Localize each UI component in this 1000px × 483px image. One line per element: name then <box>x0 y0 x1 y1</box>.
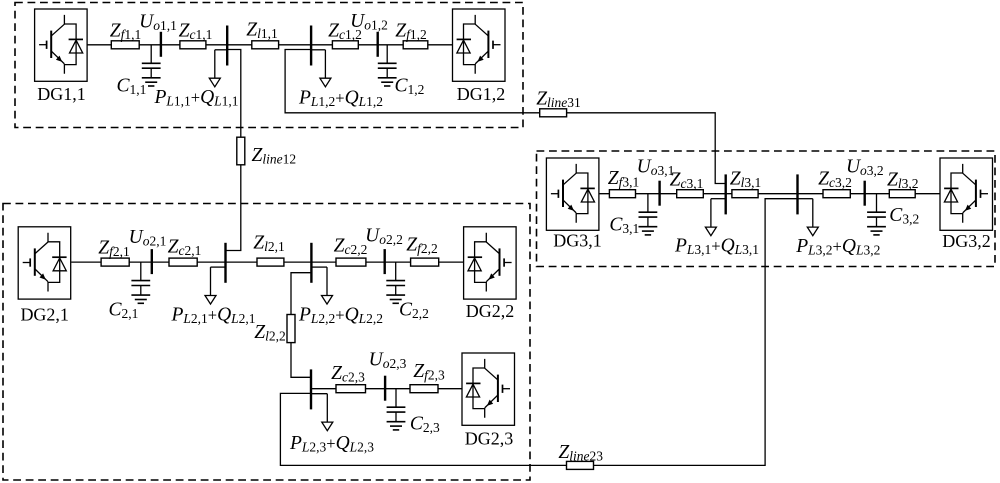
svg-text:DG3,2: DG3,2 <box>942 231 991 251</box>
bus 1,1 <box>226 26 228 66</box>
wire bus2,2 to Zl2,2 <box>291 273 311 315</box>
capacitor C2,2 <box>386 262 405 295</box>
capacitor C3,2 <box>867 194 886 227</box>
wire row3 main <box>599 193 940 195</box>
resistor Zf1,1 <box>111 41 139 49</box>
bus 2,3 <box>310 369 312 409</box>
resistor Zl2,1 <box>257 258 284 266</box>
wire bus2,3 to Zline23 <box>280 393 566 465</box>
bus 3,2 <box>796 174 798 214</box>
resistor Zc2,3 <box>336 385 366 393</box>
ground C2,1 <box>131 295 150 303</box>
wire Zline23 to bus3,2 <box>594 199 798 466</box>
ground C1,1 <box>142 78 161 86</box>
dashed box microgrid subsystem 2 <box>3 204 530 481</box>
svg-text:DG1,2: DG1,2 <box>457 84 506 104</box>
bus 2,2 <box>310 243 312 283</box>
inverter DG1,1 <box>35 9 88 81</box>
ground C2,2 <box>386 295 405 303</box>
inverter DG1,2 <box>453 9 506 81</box>
dashed box microgrid subsystem 3 <box>537 151 996 267</box>
ground C3,1 <box>639 227 658 235</box>
wire row1 main <box>87 44 453 46</box>
resistor Zl3,2 <box>889 190 915 198</box>
resistor Zc2,2 <box>336 258 366 266</box>
resistor Zc1,2 <box>332 41 358 49</box>
resistor Zc2,1 <box>169 258 197 266</box>
bus 3,1 <box>725 174 727 214</box>
resistor Zf3,1 <box>609 190 635 198</box>
resistor Zc3,1 <box>677 190 704 198</box>
node Uo2,1 <box>151 249 153 274</box>
load 1,1 arrow <box>209 50 227 87</box>
wire bus1,2 to Zline31 <box>285 50 540 113</box>
resistor Zline23 <box>567 461 594 469</box>
wire row2 main <box>71 261 463 263</box>
load 2,1 arrow <box>205 267 226 304</box>
inverter DG2,3 <box>462 353 515 425</box>
resistor Zl2,2 <box>287 315 295 343</box>
resistor Zline12 <box>237 137 245 165</box>
resistor Zf2,1 <box>101 258 129 266</box>
ground C3,2 <box>867 227 886 235</box>
ground C2,3 <box>387 422 406 430</box>
capacitor C3,1 <box>639 194 658 227</box>
dashed box microgrid subsystem 1 <box>15 3 523 128</box>
bus 2,1 <box>224 243 226 283</box>
svg-text:DG2,2: DG2,2 <box>466 301 515 321</box>
capacitor C1,2 <box>378 45 397 78</box>
wire bus1,1 to Zline12 <box>227 50 241 138</box>
node Uo2,3 <box>384 376 386 401</box>
inverter DG2,1 <box>18 227 70 299</box>
inverter DG2,2 <box>464 227 517 299</box>
resistor Zl3,1 <box>732 190 758 198</box>
resistor Zf1,2 <box>403 41 428 49</box>
load 2,3 arrow <box>311 394 333 431</box>
resistor Zl1,1 <box>252 41 279 49</box>
node Uo1,2 <box>377 32 379 57</box>
load 3,2 arrow <box>798 199 819 236</box>
bus 1,2 <box>310 26 312 66</box>
load 3,1 arrow <box>705 199 725 236</box>
resistor Zf2,2 <box>411 258 439 266</box>
load 1,2 arrow <box>311 50 331 87</box>
wire Zline31 to bus3,1 <box>567 113 726 184</box>
node Uo1,1 <box>160 32 162 57</box>
node Uo3,2 <box>864 181 866 206</box>
svg-text:DG3,1: DG3,1 <box>553 231 602 251</box>
node Uo3,1 <box>658 181 660 206</box>
resistor Zline31 <box>540 109 567 117</box>
resistor Zc1,1 <box>180 41 206 49</box>
inverter DG3,1 <box>546 158 599 230</box>
capacitor C2,1 <box>131 262 150 295</box>
wire Zline12 to bus2,1 <box>226 165 241 251</box>
svg-text:DG2,1: DG2,1 <box>20 305 69 325</box>
resistor Zc3,2 <box>823 190 850 198</box>
svg-text:DG2,3: DG2,3 <box>465 429 514 449</box>
wire row2b main <box>311 388 462 390</box>
inverter DG3,2 <box>940 158 993 230</box>
svg-text:DG1,1: DG1,1 <box>37 84 86 104</box>
capacitor C2,3 <box>387 389 406 422</box>
resistor Zf2,3 <box>410 385 438 393</box>
wire Zl2,2 to bus2,3 <box>291 343 311 378</box>
capacitor C1,1 <box>142 45 161 78</box>
load 2,2 arrow <box>311 267 332 304</box>
ground C1,2 <box>378 78 397 86</box>
node Uo2,2 <box>384 249 386 274</box>
